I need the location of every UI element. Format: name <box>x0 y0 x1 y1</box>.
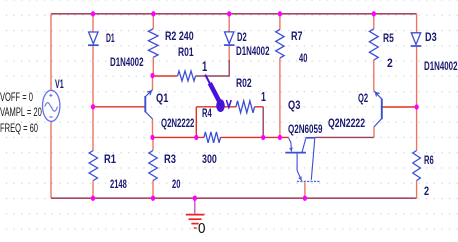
label Q2 value <box>328 116 365 130</box>
wire D1 to node A <box>92 46 94 107</box>
voltage source V1 <box>43 90 60 121</box>
resistor R5 <box>369 29 378 60</box>
wire R01 to D2 corner <box>196 75 230 77</box>
label Q3 <box>288 98 300 112</box>
wire right rail Q2base-to-R6 <box>416 107 418 151</box>
node D (wiper tap) <box>194 135 198 140</box>
label R02 value <box>261 90 266 104</box>
label R7 value <box>299 51 307 65</box>
label R4 <box>202 106 212 120</box>
wire top rail <box>51 13 417 15</box>
wire R7 branch top <box>279 14 281 30</box>
label Q2 <box>358 91 368 105</box>
resistor R01 <box>178 71 196 81</box>
wire R02 right <box>255 106 264 108</box>
wire D2 corner up <box>228 60 230 76</box>
resistor R4 <box>204 132 221 143</box>
resistor R02 <box>236 101 255 113</box>
resistor R6 <box>413 151 421 181</box>
wire Q1 collector to node C <box>152 119 154 137</box>
diode D1 <box>88 32 99 45</box>
wire Q2 base to right rail <box>382 106 417 108</box>
wire node B to Q1 emitter <box>152 76 154 90</box>
wire Q2 collector down <box>373 127 375 137</box>
node B (R2/R01) <box>150 73 154 78</box>
label R01 value <box>202 59 207 74</box>
transistor Q1 <box>145 90 152 119</box>
transistor Q2 <box>374 91 382 127</box>
wire R2 branch top <box>152 14 154 29</box>
label VAMPL <box>0 105 42 119</box>
wire Q3 collector to Q2 collector <box>315 136 374 138</box>
node G (Q2 base) <box>415 104 419 109</box>
label D3 value <box>424 59 457 73</box>
node F (R7) <box>278 135 282 140</box>
ground <box>186 198 205 228</box>
wire right rail top (to D3) <box>416 14 418 33</box>
wire D1 branch top <box>92 14 94 32</box>
wire left rail lower (V1 to bottom) <box>50 121 52 198</box>
label Q3 value <box>288 122 322 136</box>
node top-R7 <box>278 11 282 16</box>
diode D2 <box>224 32 235 45</box>
node bot-R3 <box>151 196 155 201</box>
node bot-gnd <box>193 196 197 201</box>
label R3 <box>164 152 176 166</box>
node A (Q1 base) <box>91 104 95 109</box>
label R6 value <box>424 184 429 198</box>
label R4 value <box>202 152 217 166</box>
wire node C to R4 <box>153 136 205 138</box>
node C (Q1 coll) <box>150 135 154 140</box>
transistor Q3 darlington <box>285 138 320 182</box>
label D2 <box>237 30 247 44</box>
resistor R3 <box>149 151 157 181</box>
wire right rail D3-to-Q2base <box>416 47 418 108</box>
label Q1 <box>156 91 168 105</box>
label D1 value <box>110 55 143 69</box>
label V1 <box>55 77 64 91</box>
label D2 value <box>236 44 269 58</box>
wire pot wiper horizontal to R02 <box>196 106 236 108</box>
resistor R2 <box>148 29 158 58</box>
label R01 <box>178 45 194 59</box>
voltage marker probe <box>205 75 231 112</box>
node bot-R1 <box>91 196 95 201</box>
node top-D2 <box>227 11 231 16</box>
node top-R5 <box>372 11 376 16</box>
wire R3 to bottom rail <box>152 181 154 199</box>
resistor R1 <box>89 151 97 181</box>
wire R2 to node B <box>152 57 154 75</box>
wire R5 to Q2 emitter <box>373 60 375 91</box>
label R5 value <box>387 56 393 70</box>
wire R7 to node F <box>279 58 281 137</box>
wire node B to R01 <box>153 75 178 77</box>
node top-D1 <box>91 11 95 16</box>
wire R02 down to node E <box>262 107 264 138</box>
wire node E to Q3 base <box>263 136 289 138</box>
label D3 <box>425 30 437 44</box>
label R3 value <box>172 177 180 191</box>
wire R1 to bottom rail <box>92 181 94 199</box>
wire bottom rail <box>51 197 417 199</box>
resistor R7 <box>276 30 284 59</box>
wire node A to R1 <box>92 107 94 151</box>
wire right rail R6-to-bottom <box>416 181 418 199</box>
label FREQ <box>0 121 38 135</box>
diode D3 <box>411 33 422 46</box>
node E (R02) <box>261 135 265 140</box>
wire node C to R3 <box>152 137 154 150</box>
label R1 value <box>110 177 127 191</box>
label R2 value <box>165 29 194 43</box>
label R5 <box>383 31 394 45</box>
wire pot wiper vertical <box>195 107 197 138</box>
node bot-Q3 <box>303 196 307 201</box>
wire D2 lower stub <box>228 46 230 60</box>
label R1 <box>104 152 116 166</box>
wire R5 branch top <box>373 14 375 29</box>
wire Q1 base <box>93 106 145 108</box>
label R6 <box>424 153 434 167</box>
wire D2 branch top <box>228 14 230 32</box>
label R7 <box>291 29 303 43</box>
label VOFF <box>0 90 33 104</box>
label Q1 value <box>161 116 194 130</box>
label R02 <box>236 76 252 90</box>
wire left rail upper (to V1) <box>50 14 52 90</box>
label ground 0 <box>198 221 205 237</box>
wire Q3 emitter to bottom rail <box>304 183 306 199</box>
wire R4 to node E <box>221 136 264 138</box>
node top-R2 <box>151 11 155 16</box>
label D1 <box>106 31 115 45</box>
